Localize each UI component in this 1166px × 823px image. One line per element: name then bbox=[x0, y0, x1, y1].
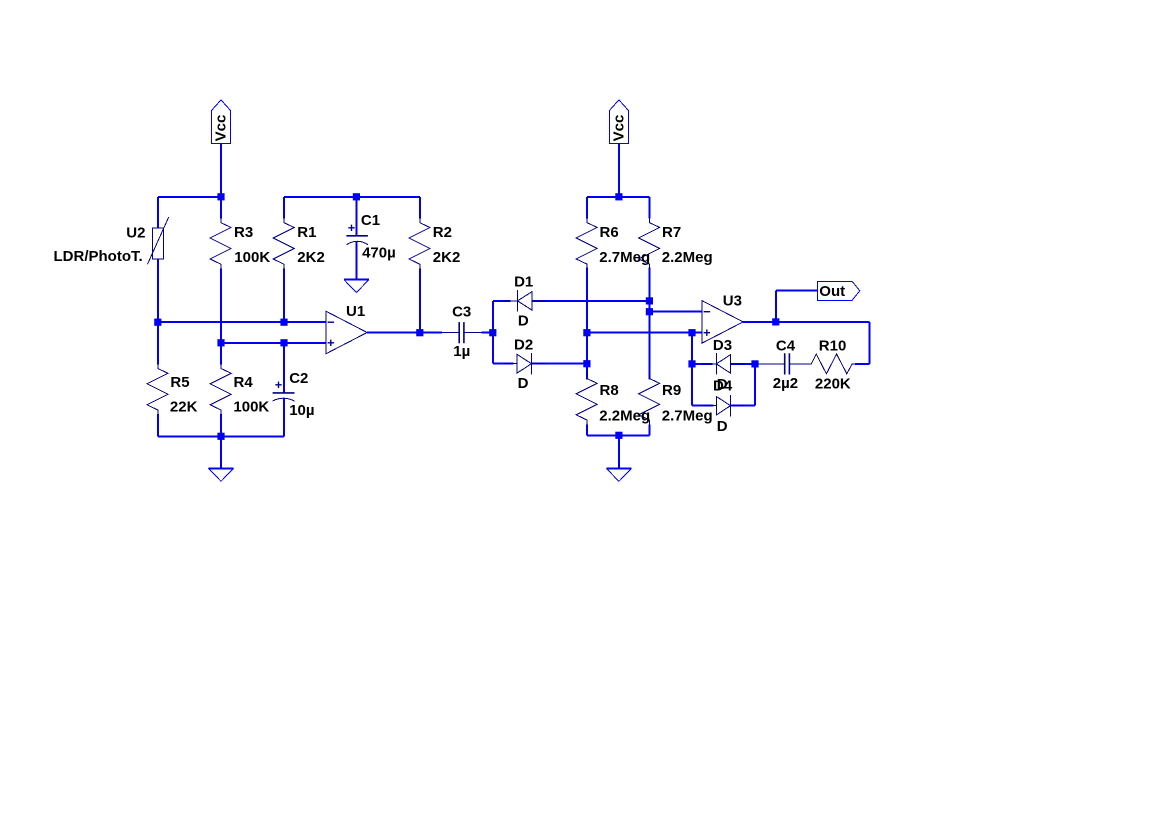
svg-text:C2: C2 bbox=[289, 370, 308, 387]
wire R5 bottom lead bbox=[157, 414, 159, 436]
ground under C1 bbox=[344, 280, 369, 293]
capacitor C4 bbox=[755, 353, 806, 374]
node D1 / R7 bbox=[646, 297, 653, 304]
svg-text:R10: R10 bbox=[819, 337, 847, 354]
wire left bottom rail bbox=[158, 435, 284, 437]
node U1 output / R2 bbox=[416, 329, 423, 336]
svg-text:D: D bbox=[518, 375, 529, 392]
wire U3 plus row bbox=[587, 332, 702, 334]
wire R3 top lead bbox=[220, 197, 222, 219]
wire to D3 cathode bbox=[692, 363, 713, 365]
svg-text:LDR/PhotoT.: LDR/PhotoT. bbox=[54, 248, 143, 265]
node C2 top plus tap bbox=[280, 339, 287, 346]
wire D4 right leg up bbox=[754, 364, 756, 406]
svg-text:D1: D1 bbox=[514, 273, 533, 290]
svg-text:U1: U1 bbox=[346, 303, 365, 320]
node U2/R5 minus tap bbox=[154, 319, 161, 326]
node R3/R4 plus tap bbox=[217, 339, 224, 346]
node C3 / diode pair bbox=[489, 329, 496, 336]
wire C2 top lead bbox=[283, 343, 285, 393]
node U3 minus tap bbox=[646, 308, 653, 315]
wire D4 left leg bbox=[691, 364, 693, 406]
resistor R6 bbox=[576, 217, 597, 269]
svg-text:220K: 220K bbox=[815, 375, 851, 392]
svg-text:10µ: 10µ bbox=[289, 402, 314, 419]
node R1 bottom minus tap bbox=[280, 319, 287, 326]
wire rail down to U2 bbox=[157, 197, 159, 228]
wire R4 bottom lead bbox=[220, 414, 222, 436]
svg-text:D2: D2 bbox=[514, 336, 533, 353]
diode D3 (points left) bbox=[703, 353, 745, 375]
node D3/D4 left bbox=[688, 360, 695, 367]
photoresistor U2 bbox=[148, 217, 169, 264]
ground left bottom bbox=[209, 468, 234, 481]
svg-text:22K: 22K bbox=[170, 399, 198, 416]
wire C2 bottom lead bbox=[283, 398, 285, 436]
wire R8 bottom lead bbox=[586, 425, 588, 436]
node Vcc1/R3 bbox=[217, 193, 224, 200]
wire to D2 anode bbox=[493, 363, 514, 365]
svg-text:D: D bbox=[518, 312, 529, 329]
svg-text:R6: R6 bbox=[600, 224, 619, 241]
svg-text:C4: C4 bbox=[776, 337, 796, 354]
wire R10 to feedback corner bbox=[855, 363, 870, 365]
svg-text:Vcc: Vcc bbox=[213, 115, 230, 142]
output flag Out bbox=[818, 281, 860, 300]
wire C3 to diode pair bbox=[482, 332, 493, 334]
svg-text:100K: 100K bbox=[233, 399, 269, 416]
svg-text:U3: U3 bbox=[723, 292, 742, 309]
resistor R9 bbox=[639, 373, 660, 426]
svg-text:R7: R7 bbox=[662, 224, 681, 241]
resistor R8 bbox=[576, 373, 597, 426]
wire D3 anode to C4 node bbox=[731, 363, 755, 365]
wire R4 top lead bbox=[220, 343, 222, 365]
wire D1 cathode to R7 node bbox=[532, 300, 649, 302]
svg-text:2.7Meg: 2.7Meg bbox=[662, 407, 713, 424]
node D3/D4 right / C4 bbox=[751, 360, 758, 367]
wire minus input row bbox=[158, 321, 326, 323]
wire R6-R7 top rail bbox=[587, 196, 650, 198]
node U3 plus tap bbox=[688, 329, 695, 336]
wire left ground stem bbox=[220, 436, 222, 468]
wire rail corner down to R2 bbox=[419, 197, 421, 219]
node left ground bbox=[217, 433, 224, 440]
svg-text:1µ: 1µ bbox=[453, 343, 470, 360]
svg-text:2K2: 2K2 bbox=[433, 249, 461, 266]
svg-text:2.7Meg: 2.7Meg bbox=[599, 249, 650, 266]
svg-text:100K: 100K bbox=[234, 249, 270, 266]
svg-text:C1: C1 bbox=[361, 212, 380, 229]
svg-text:R4: R4 bbox=[234, 374, 254, 391]
svg-text:R5: R5 bbox=[170, 374, 189, 391]
wire U2 to minus-node bbox=[157, 259, 159, 322]
svg-text:D3: D3 bbox=[713, 337, 732, 354]
svg-text:2.2Meg: 2.2Meg bbox=[662, 249, 713, 266]
wire Vcc2 stem bbox=[618, 144, 620, 197]
ground middle bottom bbox=[607, 469, 632, 482]
resistor R10 (horizontal) bbox=[806, 354, 858, 374]
wire R9 bottom lead bbox=[648, 425, 650, 436]
node R6 / U3 plus wire bbox=[583, 329, 590, 336]
node C1 top bbox=[353, 193, 360, 200]
wire out branch to flag bbox=[776, 290, 818, 292]
resistor R7 bbox=[639, 217, 660, 269]
wire U3 output row bbox=[743, 321, 870, 323]
power flag Vcc (middle) bbox=[609, 100, 628, 144]
svg-text:C3: C3 bbox=[452, 304, 471, 321]
op-amp U3 bbox=[702, 301, 743, 343]
svg-text:2µ2: 2µ2 bbox=[773, 375, 798, 392]
wire plus input row bbox=[221, 342, 326, 344]
diode D2 (points right) bbox=[504, 353, 546, 375]
svg-text:R1: R1 bbox=[297, 224, 316, 241]
wire R3 bottom to plus-row bbox=[220, 269, 222, 343]
wire Vcc1 stem bbox=[220, 144, 222, 197]
wire R5 top lead bbox=[157, 322, 159, 364]
wire R1 bottom lead bbox=[283, 269, 285, 323]
node D2 / R8 bbox=[583, 360, 590, 367]
wire R2 bottom lead bbox=[419, 269, 421, 333]
node U3 output bbox=[772, 318, 779, 325]
wire to D1 anode bbox=[493, 300, 511, 302]
svg-text:D: D bbox=[717, 418, 728, 435]
power flag Vcc (left) bbox=[212, 100, 231, 144]
capacitor C2 (polarized) bbox=[273, 382, 295, 401]
wire out branch up bbox=[775, 291, 777, 322]
svg-text:D4: D4 bbox=[713, 378, 733, 395]
node Vcc2 bbox=[615, 193, 622, 200]
capacitor C1 (polarized) bbox=[346, 225, 368, 245]
op-amp U1 bbox=[326, 311, 367, 353]
resistor R1 bbox=[273, 217, 294, 270]
wire D2 cathode to R8 node bbox=[532, 363, 587, 365]
capacitor C3 bbox=[442, 322, 482, 343]
node middle ground bbox=[615, 432, 622, 439]
resistor R2 bbox=[409, 217, 430, 270]
wire rail corner down to R1 bbox=[283, 197, 285, 219]
wire middle ground stem bbox=[618, 435, 620, 468]
svg-text:470µ: 470µ bbox=[362, 244, 396, 261]
wire vertical R7-R9 bbox=[648, 268, 650, 380]
wire diode-pair left vertical bbox=[492, 301, 494, 364]
wire D4 cathode lead bbox=[731, 405, 755, 407]
svg-text:R2: R2 bbox=[433, 224, 452, 241]
svg-text:Out: Out bbox=[819, 283, 845, 300]
wire U1 output bbox=[367, 332, 442, 334]
diode D1 (points left) bbox=[504, 290, 546, 312]
resistor R10 right lead bbox=[854, 363, 857, 365]
svg-text:Vcc: Vcc bbox=[610, 115, 627, 142]
wire C1 bottom to ground bbox=[355, 241, 357, 279]
resistor R4 bbox=[210, 363, 231, 416]
wire plus node down bbox=[691, 333, 693, 364]
diode D4 (points right) bbox=[703, 395, 745, 417]
wire mid vertical R6-R8 bbox=[586, 268, 588, 380]
wire R8-R9 bottom rail bbox=[587, 434, 650, 436]
wire R1-C1-R2 top rail bbox=[284, 196, 420, 198]
svg-text:R3: R3 bbox=[234, 224, 253, 241]
resistor R3 bbox=[210, 217, 231, 270]
wire feedback right vertical bbox=[869, 322, 871, 364]
resistor R5 bbox=[147, 363, 168, 416]
svg-text:U2: U2 bbox=[126, 225, 145, 242]
wire rail corner down to R6 bbox=[586, 197, 588, 219]
wire U3 minus input bbox=[649, 311, 702, 313]
wire rail corner down to R7 bbox=[648, 197, 650, 219]
svg-text:R8: R8 bbox=[600, 382, 619, 399]
svg-text:R9: R9 bbox=[662, 382, 681, 399]
wire D4 anode lead bbox=[692, 405, 714, 407]
svg-text:2K2: 2K2 bbox=[297, 249, 325, 266]
svg-text:2.2Meg: 2.2Meg bbox=[599, 407, 650, 424]
wire C1 top stem bbox=[355, 197, 357, 236]
wire top-left rail bbox=[158, 196, 221, 198]
